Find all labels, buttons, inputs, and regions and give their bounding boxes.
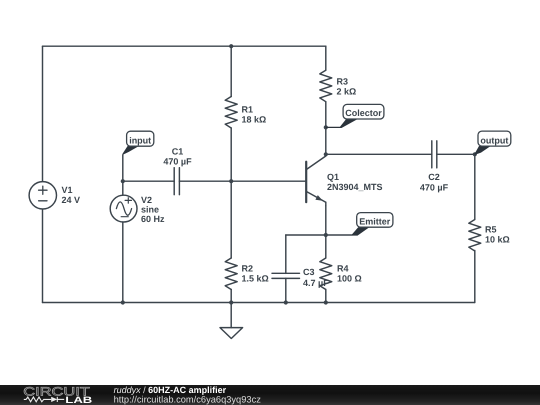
svg-text:R3: R3 — [337, 77, 349, 87]
wire R4 top — [325, 235, 327, 258]
capacitor C2 — [432, 141, 437, 168]
svg-text:Q1: Q1 — [327, 172, 339, 182]
capacitor C3 — [272, 273, 300, 278]
svg-text:100 Ω: 100 Ω — [337, 274, 362, 284]
svg-text:V2: V2 — [141, 195, 152, 205]
wire R1 bottom — [230, 128, 232, 181]
svg-text:C2: C2 — [428, 172, 440, 182]
node Colector flag — [326, 104, 384, 128]
wire input vertical — [122, 155, 124, 181]
wire collector horizontal — [326, 153, 432, 155]
junction node collector — [324, 152, 328, 156]
wire R3 top — [325, 46, 327, 70]
svg-text:10 kΩ: 10 kΩ — [485, 235, 510, 245]
svg-text:http://circuitlab.com/c6ya6q3y: http://circuitlab.com/c6ya6q3yq93cz — [114, 394, 262, 404]
svg-text:R4: R4 — [337, 264, 349, 274]
junction node R2 bottom — [229, 300, 233, 304]
wire ground stem — [230, 303, 232, 328]
svg-text:24 V: 24 V — [62, 195, 81, 205]
svg-text:R2: R2 — [242, 264, 254, 274]
svg-text:1.5 kΩ: 1.5 kΩ — [242, 274, 269, 284]
svg-text:2 kΩ: 2 kΩ — [337, 87, 357, 97]
node Emitter flag — [352, 213, 393, 236]
junction node output — [473, 152, 477, 156]
resistor R2 — [225, 258, 237, 290]
junction node V2 bottom — [121, 300, 125, 304]
wire emitter vertical — [325, 206, 327, 235]
wire input row left — [123, 180, 174, 182]
wire output vertical — [474, 154, 476, 219]
voltage source V2 — [110, 195, 137, 222]
voltage source V1 — [29, 182, 56, 209]
wire R1 top — [230, 46, 232, 96]
wire C2 to output — [437, 153, 475, 155]
wire R2 top — [230, 181, 232, 258]
wire C3 top — [285, 235, 287, 273]
svg-text:R5: R5 — [485, 225, 497, 235]
junction node base row R1 — [229, 179, 233, 183]
transistor Q1 — [306, 156, 326, 202]
wire emitter right — [326, 234, 352, 236]
logo resistor-diode wire — [24, 397, 64, 402]
wire V2 top — [122, 181, 124, 195]
resistor R4 — [320, 258, 332, 290]
svg-text:2N3904_MTS: 2N3904_MTS — [327, 182, 383, 192]
capacitor C1 — [174, 168, 179, 195]
svg-text:Colector: Colector — [345, 108, 382, 118]
resistor R1 — [225, 97, 237, 129]
svg-text:R1: R1 — [242, 105, 254, 115]
wire bottom rail — [43, 302, 475, 304]
junction node input — [121, 179, 125, 183]
node output flag — [475, 131, 511, 155]
svg-text:18 kΩ: 18 kΩ — [242, 115, 267, 125]
wire collector vertical — [325, 102, 327, 155]
junction node collector flag — [324, 125, 328, 129]
svg-text:output: output — [480, 135, 508, 145]
node input flag — [123, 131, 154, 155]
svg-text:sine: sine — [141, 205, 159, 215]
svg-text:4.7 µF: 4.7 µF — [303, 278, 329, 288]
wire C3 bottom — [285, 278, 287, 302]
svg-text:470 µF: 470 µF — [420, 183, 449, 193]
svg-text:470 µF: 470 µF — [163, 157, 192, 167]
svg-text:LAB: LAB — [65, 395, 92, 405]
wire emitter left — [286, 234, 326, 236]
svg-text:60 Hz: 60 Hz — [141, 214, 165, 224]
svg-text:input: input — [129, 136, 151, 146]
resistor R3 — [320, 70, 332, 102]
junction node top R1 — [229, 44, 233, 48]
ground — [220, 328, 243, 339]
junction node R4 bottom — [324, 300, 328, 304]
svg-text:C1: C1 — [172, 147, 184, 157]
svg-text:C3: C3 — [303, 267, 315, 277]
wire base row — [179, 180, 305, 182]
wire top rail — [43, 45, 326, 47]
svg-text:Emitter: Emitter — [359, 216, 391, 226]
wire R5 bottom — [474, 251, 476, 303]
wire left rail upper — [42, 46, 44, 181]
wire R4 bottom — [325, 290, 327, 303]
junction node C3 bottom — [284, 300, 288, 304]
svg-text:V1: V1 — [62, 185, 73, 195]
resistor R5 — [469, 220, 481, 252]
wire R2 bottom — [230, 290, 232, 303]
footer bar — [0, 385, 540, 405]
wire left rail lower — [42, 209, 44, 303]
junction node emitter — [324, 233, 328, 237]
wire V2 bottom — [122, 222, 124, 302]
wire emitter diagonal tail — [325, 202, 327, 206]
